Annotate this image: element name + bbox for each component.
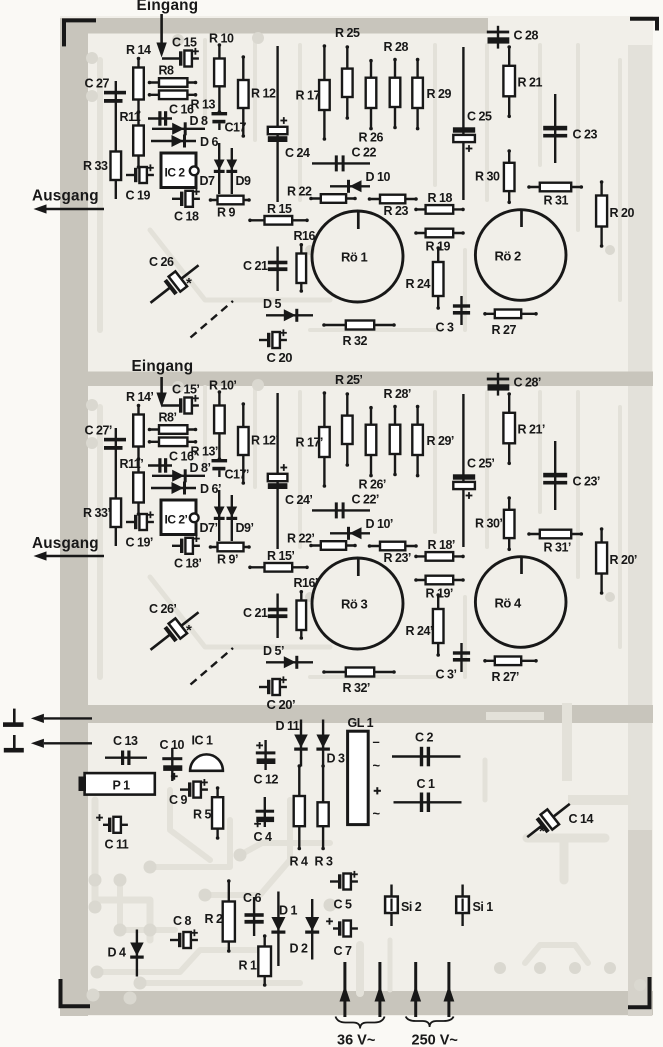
resistor R18 [414, 191, 465, 214]
svg-text:R 14’: R 14’ [126, 390, 153, 404]
svg-text:D 6’: D 6’ [200, 482, 221, 496]
svg-text:C 24: C 24 [285, 146, 310, 160]
svg-text:R 14: R 14 [126, 43, 151, 57]
svg-text:D 8: D 8 [190, 114, 209, 128]
capacitor C7 [326, 918, 358, 958]
wire AC input 2 [375, 962, 386, 1017]
resistor R28' [384, 387, 411, 476]
resistor R30 [475, 149, 515, 204]
capacitor C24' [268, 393, 313, 549]
svg-text:C 5: C 5 [334, 898, 353, 912]
svg-text:C 28’: C 28’ [514, 376, 541, 390]
capacitor C22 [312, 146, 376, 172]
diode D7 [200, 143, 225, 194]
resistor R27' [483, 657, 538, 685]
capacitor C16 [148, 103, 194, 126]
svg-text:P 1: P 1 [113, 779, 131, 793]
svg-text:R 15’: R 15’ [267, 549, 294, 563]
wire dashed trace [191, 301, 234, 338]
svg-text:C 22: C 22 [352, 146, 377, 160]
svg-text:R11: R11 [120, 110, 141, 124]
svg-text:IC 2: IC 2 [165, 166, 186, 180]
svg-text:GL 1: GL 1 [348, 716, 374, 730]
wire dashed trace' [191, 648, 234, 685]
resistor R25' [335, 373, 362, 467]
svg-text:R 20’: R 20’ [610, 553, 637, 567]
svg-text:C 8: C 8 [173, 914, 192, 928]
svg-text:C 27’: C 27’ [85, 424, 112, 438]
resistor R30' [475, 496, 515, 551]
capacitor C16' [148, 450, 196, 473]
capacitor C24 [268, 46, 310, 202]
resistor R11 [120, 110, 144, 169]
capacitor C28' [487, 373, 541, 396]
svg-text:Rö 1: Rö 1 [341, 250, 367, 265]
svg-text:R8: R8 [159, 64, 175, 78]
tube Rö 2 [475, 210, 566, 301]
resistor R31 [527, 183, 583, 208]
svg-text:C 27: C 27 [85, 77, 110, 91]
op-amp IC2 [161, 153, 199, 188]
capacitor C20 [259, 329, 292, 365]
node Ausgang (output) channel 2 [32, 535, 104, 561]
svg-text:R 13: R 13 [191, 98, 216, 112]
svg-text:R 26: R 26 [359, 131, 384, 145]
resistor R12 [238, 55, 276, 138]
svg-text:C 26: C 26 [149, 255, 174, 269]
svg-text:R 28’: R 28’ [384, 387, 411, 401]
svg-text:R 29: R 29 [427, 87, 452, 101]
svg-text:36 V~: 36 V~ [337, 1033, 375, 1047]
svg-text:R8’: R8’ [159, 411, 177, 425]
svg-text:R 12: R 12 [251, 87, 276, 101]
svg-text:*: * [186, 275, 192, 292]
capacitor C9 [169, 779, 208, 807]
svg-text:D 8’: D 8’ [190, 461, 211, 475]
svg-text:C 3’: C 3’ [436, 668, 457, 682]
ground terminal 1 [3, 709, 92, 727]
fuse Si2 [385, 885, 422, 927]
resistor R32 [322, 321, 396, 349]
resistor R27 [483, 310, 538, 338]
diode D6 [151, 135, 219, 150]
svg-text:–: – [373, 734, 380, 749]
resistor R26' [359, 406, 386, 492]
svg-text:R 4: R 4 [290, 855, 309, 869]
svg-text:R 23: R 23 [384, 204, 409, 218]
svg-text:R 10’: R 10’ [209, 379, 236, 393]
wire AC input 1 [340, 962, 351, 1017]
svg-text:D 1: D 1 [279, 904, 298, 918]
fuse Si1 [456, 885, 493, 927]
svg-text:R 31: R 31 [544, 194, 569, 208]
svg-text:R 33’: R 33’ [83, 506, 110, 520]
svg-text:Eingang: Eingang [137, 0, 199, 14]
svg-text:R 25: R 25 [335, 26, 360, 40]
svg-text:Rö 2: Rö 2 [495, 249, 521, 264]
svg-text:R 5: R 5 [193, 808, 212, 822]
svg-text:D7’: D7’ [200, 521, 218, 535]
svg-text:R 31’: R 31’ [544, 541, 571, 555]
svg-text:*: * [539, 823, 545, 840]
capacitor C13 [105, 734, 147, 765]
svg-text:R 3: R 3 [315, 855, 334, 869]
svg-text:Ausgang: Ausgang [32, 188, 99, 205]
svg-text:IC 1: IC 1 [192, 734, 213, 748]
svg-text:IC 2’: IC 2’ [165, 513, 188, 527]
svg-text:R 17: R 17 [296, 89, 321, 103]
capacitor C15' [162, 383, 199, 414]
svg-text:R 32: R 32 [343, 334, 368, 348]
diode D10' [330, 517, 393, 540]
svg-text:R 17’: R 17’ [296, 436, 323, 450]
svg-text:Ausgang: Ausgang [32, 535, 99, 552]
svg-text:C 24’: C 24’ [285, 493, 312, 507]
capacitor C19 [126, 164, 154, 202]
svg-text:D 2: D 2 [290, 942, 309, 956]
svg-text:C 26’: C 26’ [149, 602, 176, 616]
resistor R4 [290, 764, 309, 868]
svg-text:C 18: C 18 [174, 210, 199, 224]
svg-text:C 9: C 9 [169, 793, 188, 807]
svg-text:R 25’: R 25’ [335, 373, 362, 387]
svg-text:C 11: C 11 [105, 838, 129, 852]
svg-text:Rö 4: Rö 4 [495, 596, 522, 611]
capacitor C17' [212, 459, 249, 482]
svg-text:D 10’: D 10’ [366, 517, 393, 531]
svg-text:R 10: R 10 [209, 32, 234, 46]
resistor R23 [368, 195, 418, 218]
capacitor C22' [312, 493, 379, 519]
svg-text:D9’: D9’ [236, 521, 254, 535]
node 36V~ input [336, 1017, 385, 1047]
diode D5 [263, 297, 313, 322]
svg-text:R 30’: R 30’ [475, 517, 502, 531]
svg-text:R 12’: R 12’ [251, 434, 278, 448]
capacitor C5 [330, 871, 358, 912]
capacitor C18' [172, 535, 201, 570]
svg-text:R 27: R 27 [492, 323, 517, 337]
node Eingang (input) channel 1 [137, 0, 199, 58]
resistor R15 [248, 202, 309, 225]
resistor R5 [193, 786, 223, 840]
diode D7' [200, 490, 225, 541]
resistor R2 [205, 879, 235, 953]
svg-text:*: * [186, 622, 192, 639]
potentiometer P1 [79, 773, 155, 795]
svg-text:C17’: C17’ [225, 468, 249, 482]
svg-text:C 23’: C 23’ [573, 475, 600, 489]
svg-text:C 1: C 1 [417, 777, 436, 791]
resistor R25 [335, 26, 360, 120]
svg-text:R 21’: R 21’ [518, 423, 545, 437]
ground terminal 2 [4, 735, 92, 753]
node Ausgang (output) channel 1 [32, 188, 104, 214]
svg-text:R 9’: R 9’ [217, 553, 238, 567]
diode D11 [276, 719, 308, 767]
svg-text:R 1: R 1 [239, 959, 258, 973]
capacitor C14 [521, 796, 593, 844]
svg-text:C 14: C 14 [569, 812, 594, 826]
capacitor C28 [487, 26, 539, 49]
tube Rö 1 [312, 211, 403, 302]
svg-text:C 19’: C 19’ [126, 536, 153, 550]
diode D3 [316, 720, 345, 767]
svg-text:R16: R16 [294, 229, 316, 243]
svg-text:R 15: R 15 [267, 202, 292, 216]
rectifier GL1 [348, 716, 381, 825]
resistor R8' [148, 411, 198, 434]
capacitor C3' [436, 643, 471, 682]
svg-text:C 21’: C 21’ [243, 606, 270, 620]
svg-text:R 21: R 21 [518, 76, 543, 90]
resistor R24' [406, 593, 444, 657]
resistor R9' [209, 543, 251, 567]
svg-text:C 28: C 28 [514, 29, 539, 43]
svg-text:C 20: C 20 [267, 350, 293, 365]
svg-text:D 3: D 3 [327, 752, 346, 766]
svg-text:Si 2: Si 2 [401, 900, 422, 914]
svg-text:D 4: D 4 [108, 946, 127, 960]
svg-text:C 18’: C 18’ [174, 557, 201, 571]
resistor R19' [414, 576, 465, 601]
svg-text:R 9: R 9 [217, 206, 236, 220]
capacitor C2 [392, 731, 461, 767]
node 250V~ input [406, 1017, 458, 1047]
svg-text:R 20: R 20 [610, 206, 635, 220]
resistor R11' [120, 457, 144, 516]
svg-text:D7: D7 [200, 174, 216, 188]
svg-text:R 18’: R 18’ [428, 538, 455, 552]
svg-text:C 6: C 6 [243, 891, 262, 905]
svg-text:Eingang: Eingang [132, 358, 194, 375]
svg-text:D 10: D 10 [366, 170, 391, 184]
resistor R24 [406, 246, 444, 310]
resistor R21' [503, 392, 545, 465]
resistor R28 [384, 40, 409, 129]
svg-text:R 22: R 22 [287, 185, 312, 199]
resistor R9 [209, 196, 251, 220]
wire C27-R33 column' [115, 428, 117, 546]
diode D6' [151, 482, 221, 497]
resistor R13' [148, 438, 218, 459]
resistor R15' [248, 549, 309, 572]
svg-text:R 2: R 2 [205, 912, 224, 926]
svg-text:C 7: C 7 [334, 944, 353, 958]
resistor R33' [83, 499, 121, 528]
svg-text:C 20’: C 20’ [267, 697, 296, 712]
svg-text:R 29’: R 29’ [427, 434, 454, 448]
resistor R1 [239, 934, 272, 987]
svg-text:C 22’: C 22’ [352, 493, 379, 507]
svg-text:D9: D9 [236, 174, 252, 188]
diode D8 [152, 114, 208, 135]
capacitor C3 [436, 296, 471, 335]
svg-text:R 22’: R 22’ [287, 532, 314, 546]
svg-text:C 23: C 23 [573, 128, 598, 142]
resistor R19 [414, 229, 465, 254]
svg-text:C 25: C 25 [467, 110, 492, 124]
diode D1 [271, 892, 297, 967]
resistor R8 [148, 64, 198, 87]
resistor R31' [527, 530, 583, 555]
capacitor C19' [126, 511, 154, 549]
svg-text:C 3: C 3 [436, 321, 455, 335]
svg-text:R 24’: R 24’ [406, 624, 433, 638]
resistor R16' [294, 576, 318, 640]
diode D10 [330, 170, 390, 193]
svg-text:R 32’: R 32’ [343, 681, 370, 695]
capacitor C20' [259, 676, 295, 712]
resistor R26 [359, 59, 384, 145]
capacitor C18 [172, 188, 200, 223]
svg-text:Si 1: Si 1 [473, 900, 494, 914]
diode D8' [152, 461, 210, 482]
svg-text:R 27’: R 27’ [492, 670, 519, 684]
resistor R10 [209, 32, 234, 114]
resistor R20' [596, 527, 637, 595]
svg-text:C 13: C 13 [113, 734, 138, 748]
svg-text:C 15’: C 15’ [172, 383, 199, 397]
svg-text:Rö 3: Rö 3 [341, 597, 367, 612]
svg-text:C 15: C 15 [172, 36, 197, 50]
svg-text:R 26’: R 26’ [359, 478, 386, 492]
svg-text:R 30: R 30 [475, 170, 500, 184]
capacitor C23' [543, 441, 600, 510]
svg-text:R11’: R11’ [120, 457, 144, 471]
capacitor C26 [145, 255, 205, 310]
resistor R16 [294, 229, 316, 293]
resistor R10' [209, 379, 236, 461]
diode D4 [108, 930, 144, 977]
svg-text:~: ~ [373, 806, 381, 821]
capacitor C21 [243, 247, 287, 292]
svg-text:C 4: C 4 [254, 830, 273, 844]
svg-text:R 23’: R 23’ [384, 551, 411, 565]
svg-text:~: ~ [373, 758, 381, 773]
svg-text:C 25’: C 25’ [467, 457, 494, 471]
svg-text:D 5’: D 5’ [263, 644, 284, 658]
capacitor C27' [85, 424, 127, 450]
resistor R17' [296, 391, 330, 488]
capacitor C21' [243, 594, 287, 639]
capacitor C11 [96, 814, 129, 851]
resistor R14 [126, 43, 151, 114]
resistor R17 [296, 44, 330, 141]
svg-text:D 5: D 5 [263, 297, 282, 311]
svg-text:D 11: D 11 [276, 719, 300, 733]
resistor R23' [368, 542, 418, 565]
resistor R20 [596, 180, 634, 248]
diode D9 [226, 148, 251, 194]
diode D5' [263, 644, 313, 669]
svg-text:R 24: R 24 [406, 277, 431, 291]
resistor R22 [287, 185, 357, 203]
capacitor C1 [394, 777, 462, 812]
svg-text:C 21: C 21 [243, 259, 268, 273]
capacitor C4 [254, 797, 275, 844]
svg-text:C 19: C 19 [126, 189, 151, 203]
resistor R22' [287, 532, 357, 550]
wire AC input 4 [444, 962, 455, 1017]
resistor R33 [83, 152, 121, 181]
capacitor C17 [212, 112, 247, 135]
capacitor C12 [254, 740, 279, 787]
node Eingang (input) channel 2 [132, 358, 194, 408]
resistor R13 [148, 91, 216, 112]
capacitor C25 [453, 47, 492, 200]
diode D2 [290, 899, 320, 960]
capacitor C10 [160, 738, 185, 781]
resistor R3 [315, 764, 334, 868]
svg-text:C 2: C 2 [415, 731, 434, 745]
capacitor C26' [145, 602, 205, 657]
capacitor C25' [453, 394, 495, 547]
regulator IC1 [190, 734, 223, 771]
resistor R18' [414, 538, 465, 561]
tube Rö 3 [312, 558, 403, 649]
resistor R29 [412, 58, 451, 131]
capacitor C27 [85, 77, 127, 103]
svg-text:R 18: R 18 [428, 191, 453, 205]
resistor R21 [503, 45, 542, 118]
capacitor C15 [162, 36, 199, 67]
svg-text:R 28: R 28 [384, 40, 409, 54]
resistor R32' [322, 668, 396, 696]
svg-text:C 12: C 12 [254, 773, 279, 787]
capacitor C8 [170, 914, 198, 948]
svg-text:R 33: R 33 [83, 159, 108, 173]
wire C27-R33 column [115, 81, 117, 199]
svg-text:250 V~: 250 V~ [412, 1033, 458, 1047]
tube Rö 4 [475, 557, 566, 648]
resistor R14' [126, 390, 153, 461]
resistor R29' [412, 405, 454, 478]
diode D9' [226, 495, 253, 541]
resistor R12' [238, 402, 278, 485]
wire AC input 3 [410, 962, 421, 1017]
capacitor C6 [243, 891, 264, 936]
op-amp IC2' [161, 500, 199, 535]
capacitor C23 [543, 94, 597, 163]
svg-text:D 6: D 6 [200, 135, 219, 149]
svg-text:C 10: C 10 [160, 738, 185, 752]
